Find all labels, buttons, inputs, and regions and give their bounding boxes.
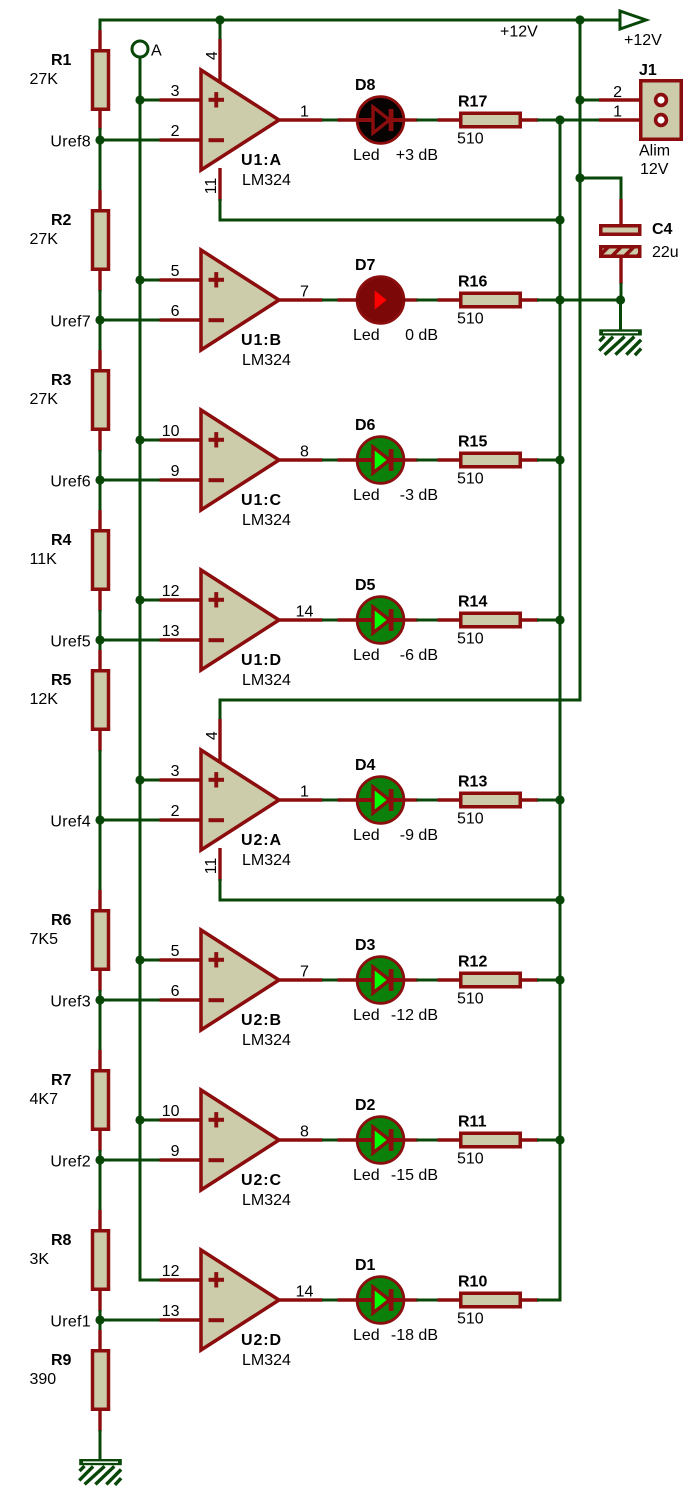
- wire: input bus to U1:C +IN: [140, 439, 161, 442]
- svg-text:Led: Led: [353, 1167, 380, 1184]
- wire: U1:A pin11 to return rail: [219, 219, 561, 222]
- junction: return rail / R15: [555, 455, 564, 464]
- svg-text:LM324: LM324: [242, 1032, 291, 1049]
- svg-text:U1:C: U1:C: [241, 492, 282, 509]
- svg-text:D7: D7: [355, 257, 376, 274]
- resistor R4: [93, 510, 109, 612]
- wire: D7 to R16: [417, 299, 439, 302]
- svg-text:-18 dB: -18 dB: [391, 1327, 438, 1344]
- resistor R6: [93, 890, 109, 992]
- svg-text:Uref6: Uref6: [50, 474, 91, 491]
- svg-text:510: 510: [457, 1311, 484, 1328]
- wire: U1:B OUT to D7: [322, 299, 339, 302]
- svg-text:+12V: +12V: [624, 32, 662, 49]
- LED D2: [338, 1117, 418, 1164]
- wire: +12V rail corner to U2:A pin4: [219, 699, 582, 702]
- wire: D2 to R11: [417, 1139, 439, 1142]
- svg-text:510: 510: [457, 991, 484, 1008]
- svg-text:Uref3: Uref3: [50, 994, 91, 1011]
- wire: input bus from terminal A down to U2:D pin12: [139, 57, 142, 1282]
- wire: U2:C OUT to D2: [322, 1139, 339, 1142]
- junction: input bus / U1:A +IN: [135, 95, 144, 104]
- LED D4: [338, 777, 418, 824]
- wire: above R8: [99, 1159, 102, 1211]
- wire: R15 to return rail: [537, 459, 562, 462]
- svg-text:Led: Led: [353, 1007, 380, 1024]
- wire: below R9: [99, 1430, 102, 1460]
- wire: input bus to U1:A +IN: [140, 99, 161, 102]
- svg-text:D6: D6: [355, 417, 376, 434]
- wire: D5 to R14: [417, 619, 439, 622]
- svg-text:510: 510: [457, 811, 484, 828]
- svg-text:LM324: LM324: [242, 852, 291, 869]
- wire: input bus corner to U2:D pin12: [139, 1279, 162, 1282]
- wire: input bus to U1:D +IN: [140, 599, 161, 602]
- svg-text:5: 5: [171, 263, 180, 280]
- junction: input bus / U2:C +IN: [135, 1115, 144, 1124]
- svg-text:R15: R15: [458, 434, 487, 451]
- svg-text:510: 510: [457, 1151, 484, 1168]
- terminal A (input): [132, 41, 148, 57]
- wire: return rail to C4 ground node: [560, 299, 623, 302]
- wire: U2:A pin11 to return rail: [219, 899, 561, 902]
- op-amp U1:D: [160, 570, 323, 670]
- svg-text:5: 5: [171, 943, 180, 960]
- wire: below R5: [99, 750, 102, 822]
- svg-text:Led: Led: [353, 147, 380, 164]
- svg-text:-3 dB: -3 dB: [400, 487, 438, 504]
- wire: U2:D OUT to D1: [322, 1299, 339, 1302]
- junction: return rail / U1:A pin11: [555, 215, 564, 224]
- pin 11 wire (U2:A GND): [218, 848, 221, 881]
- junction: return rail / R12: [555, 975, 564, 984]
- svg-text:U1:B: U1:B: [241, 332, 282, 349]
- ground (near C4): [599, 329, 642, 355]
- resistor R16: [438, 293, 539, 307]
- resistor R14: [438, 613, 539, 627]
- resistor R5: [93, 650, 109, 752]
- wire: Uref7 to U1:B -IN: [100, 319, 161, 322]
- svg-text:Led: Led: [353, 327, 380, 344]
- svg-text:27K: 27K: [30, 391, 59, 408]
- svg-text:D1: D1: [355, 1257, 376, 1274]
- pin 4 wire (U2:A V+): [219, 699, 222, 721]
- svg-text:LM324: LM324: [242, 1352, 291, 1369]
- resistor R8: [93, 1210, 109, 1312]
- wire: Uref1 to U2:D -IN: [100, 1319, 161, 1322]
- resistor R11: [438, 1133, 539, 1147]
- wire: input bus to U2:C +IN: [140, 1119, 161, 1122]
- LED D1: [338, 1277, 418, 1324]
- node Uref1: [95, 1315, 104, 1324]
- svg-text:7: 7: [300, 964, 309, 981]
- junction: return rail / R13: [555, 795, 564, 804]
- svg-text:LM324: LM324: [242, 512, 291, 529]
- svg-text:27K: 27K: [30, 231, 59, 248]
- wire: Uref6 to U1:C -IN: [100, 479, 161, 482]
- svg-text:1: 1: [613, 104, 622, 121]
- wire: R16 to return rail: [537, 299, 562, 302]
- svg-text:12: 12: [162, 583, 180, 600]
- svg-text:R3: R3: [51, 372, 72, 389]
- svg-text:Uref7: Uref7: [50, 314, 91, 331]
- svg-text:3: 3: [171, 763, 180, 780]
- wire: R10 to return rail: [537, 1299, 562, 1302]
- junction: input bus / U2:B +IN: [135, 955, 144, 964]
- wire: +12V rail to C4: [579, 177, 623, 180]
- svg-text:Led: Led: [353, 1327, 380, 1344]
- svg-text:R13: R13: [458, 774, 487, 791]
- svg-text:11: 11: [203, 178, 220, 195]
- node Uref7: [95, 315, 104, 324]
- wire: Uref5 to U1:D -IN: [100, 639, 161, 642]
- svg-text:U1:A: U1:A: [241, 152, 282, 169]
- svg-text:R11: R11: [458, 1114, 487, 1131]
- svg-text:2: 2: [171, 123, 180, 140]
- wire: R13 to return rail: [537, 799, 562, 802]
- svg-text:510: 510: [457, 131, 484, 148]
- wire: +12V rail to J1 pin2: [579, 99, 601, 102]
- svg-text:Uref1: Uref1: [50, 1314, 91, 1331]
- svg-text:7K5: 7K5: [30, 931, 59, 948]
- svg-text:LM324: LM324: [242, 1192, 291, 1209]
- wire: input bus to U2:B +IN: [140, 959, 161, 962]
- wire: above R9: [99, 1319, 102, 1331]
- wire: above R4: [99, 479, 102, 511]
- svg-text:+3 dB: +3 dB: [396, 147, 438, 164]
- svg-text:R10: R10: [458, 1274, 487, 1291]
- svg-text:7: 7: [300, 284, 309, 301]
- wire: U2:B OUT to D3: [322, 979, 339, 982]
- wire: LED return rail (to J1 pin1): [559, 120, 562, 1302]
- svg-text:11: 11: [203, 858, 220, 875]
- svg-text:12V: 12V: [640, 161, 669, 178]
- wire: ground node down: [619, 300, 622, 330]
- LED D5: [338, 597, 418, 644]
- wire: above R7: [99, 999, 102, 1051]
- svg-text:3: 3: [171, 83, 180, 100]
- LED D6: [338, 437, 418, 484]
- wire: D4 to R13: [417, 799, 439, 802]
- junction: input bus / U1:C +IN: [135, 435, 144, 444]
- svg-text:J1: J1: [639, 62, 657, 79]
- junction: return rail / R14: [555, 615, 564, 624]
- svg-text:+12V: +12V: [500, 24, 538, 41]
- LED D3: [338, 957, 418, 1004]
- svg-text:R7: R7: [51, 1072, 72, 1089]
- wire: +12V vertical rail: [579, 19, 582, 702]
- wire: Uref3 to U2:B -IN: [100, 999, 161, 1002]
- wire: above R5: [99, 639, 102, 651]
- svg-text:R6: R6: [51, 912, 72, 929]
- svg-text:R8: R8: [51, 1232, 72, 1249]
- op-amp U2:A: [160, 750, 323, 850]
- svg-text:Led: Led: [353, 647, 380, 664]
- wire: below R2: [99, 290, 102, 322]
- svg-text:14: 14: [296, 1284, 314, 1301]
- power terminal +12V arrow: [620, 11, 646, 29]
- junction: return rail / R17: [555, 115, 564, 124]
- capacitor C4: [601, 199, 640, 284]
- wire: return rail to J1 pin1: [559, 119, 601, 122]
- wire: Uref2 to U2:C -IN: [100, 1159, 161, 1162]
- pin 4 wire (U1:A V+): [219, 19, 222, 41]
- svg-text:13: 13: [162, 623, 180, 640]
- svg-text:2: 2: [171, 803, 180, 820]
- svg-text:390: 390: [30, 1371, 57, 1388]
- wire: Uref4 to U2:A -IN: [100, 819, 161, 822]
- node Uref5: [95, 635, 104, 644]
- svg-text:LM324: LM324: [242, 672, 291, 689]
- wire: D8 to R17: [417, 119, 439, 122]
- wire: R12 to return rail: [537, 979, 562, 982]
- op-amp U2:B: [160, 930, 323, 1030]
- junction: return rail / U2:A pin11: [555, 895, 564, 904]
- svg-text:A: A: [151, 43, 162, 60]
- svg-text:R2: R2: [51, 212, 72, 229]
- svg-text:D2: D2: [355, 1097, 376, 1114]
- wire: C4 to ground node: [620, 283, 623, 302]
- svg-text:22u: 22u: [652, 244, 679, 261]
- svg-text:Uref4: Uref4: [50, 814, 91, 831]
- junction: input bus / U1:B +IN: [135, 275, 144, 284]
- svg-text:Led: Led: [353, 487, 380, 504]
- wire: U1:A OUT to D8: [322, 119, 339, 122]
- svg-text:510: 510: [457, 471, 484, 488]
- connector J1: [599, 81, 681, 140]
- resistor R9: [93, 1330, 109, 1432]
- svg-text:4: 4: [204, 731, 221, 740]
- svg-text:12K: 12K: [30, 691, 59, 708]
- wire: below R3: [99, 450, 102, 482]
- node Uref3: [95, 995, 104, 1004]
- node Uref8: [95, 135, 104, 144]
- wire: +12V top rail: [99, 19, 621, 22]
- node Uref2: [95, 1155, 104, 1164]
- op-amp U1:A: [160, 70, 323, 170]
- wire: R11 to return rail: [537, 1139, 562, 1142]
- svg-text:9: 9: [171, 463, 180, 480]
- svg-text:27K: 27K: [30, 71, 59, 88]
- wire: below R4: [99, 610, 102, 642]
- node Uref4: [95, 815, 104, 824]
- svg-text:D5: D5: [355, 577, 376, 594]
- resistor R10: [438, 1293, 539, 1307]
- svg-text:LM324: LM324: [242, 172, 291, 189]
- junction: return rail / R16: [555, 295, 564, 304]
- svg-text:D4: D4: [355, 757, 376, 774]
- svg-text:3K: 3K: [30, 1251, 50, 1268]
- junction: return rail / R11: [555, 1135, 564, 1144]
- svg-text:R17: R17: [458, 94, 487, 111]
- svg-text:9: 9: [171, 1143, 180, 1160]
- svg-text:R12: R12: [458, 954, 487, 971]
- svg-text:-6 dB: -6 dB: [400, 647, 438, 664]
- resistor R15: [438, 453, 539, 467]
- op-amp U1:B: [160, 250, 323, 350]
- svg-text:-15 dB: -15 dB: [391, 1167, 438, 1184]
- LED D7: [338, 277, 418, 324]
- svg-text:U1:D: U1:D: [241, 652, 282, 669]
- svg-text:10: 10: [162, 423, 180, 440]
- svg-text:R4: R4: [51, 532, 72, 549]
- junction: +12V rail / J1 pin2: [575, 95, 584, 104]
- wire: input bus to U2:A +IN: [140, 779, 161, 782]
- svg-text:U2:A: U2:A: [241, 832, 282, 849]
- svg-text:D8: D8: [355, 77, 376, 94]
- resistor R17: [438, 113, 539, 127]
- svg-text:8: 8: [300, 1124, 309, 1141]
- wire: below R1: [99, 128, 102, 142]
- svg-text:U2:C: U2:C: [241, 1172, 282, 1189]
- svg-text:510: 510: [457, 631, 484, 648]
- svg-text:D3: D3: [355, 937, 376, 954]
- op-amp U1:C: [160, 410, 323, 510]
- svg-text:4K7: 4K7: [30, 1091, 59, 1108]
- svg-text:0 dB: 0 dB: [405, 327, 438, 344]
- junction: input bus / U2:A +IN: [135, 775, 144, 784]
- svg-text:R5: R5: [51, 672, 72, 689]
- junction: top rail / U1:A pin4: [215, 15, 224, 24]
- wire: Uref8 to U1:A -IN: [100, 139, 161, 142]
- svg-text:U2:D: U2:D: [241, 1332, 282, 1349]
- svg-text:Led: Led: [353, 827, 380, 844]
- svg-text:6: 6: [171, 303, 180, 320]
- svg-text:Uref2: Uref2: [50, 1154, 91, 1171]
- wire: D6 to R15: [417, 459, 439, 462]
- wire: D1 to R10: [417, 1299, 439, 1302]
- svg-text:11K: 11K: [30, 551, 58, 568]
- svg-text:1: 1: [300, 104, 309, 121]
- wire: below R7: [99, 1150, 102, 1162]
- svg-text:6: 6: [171, 983, 180, 1000]
- svg-text:8: 8: [300, 444, 309, 461]
- svg-text:C4: C4: [652, 221, 673, 238]
- junction: +12V rail / C4 branch: [575, 173, 584, 182]
- resistor R13: [438, 793, 539, 807]
- svg-text:-12 dB: -12 dB: [391, 1007, 438, 1024]
- wire: D3 to R12: [417, 979, 439, 982]
- wire: R14 to return rail: [537, 619, 562, 622]
- svg-text:Uref8: Uref8: [50, 134, 91, 151]
- resistor R7: [93, 1050, 109, 1152]
- svg-text:2: 2: [613, 84, 622, 101]
- svg-text:1: 1: [300, 784, 309, 801]
- junction: input bus / U1:D +IN: [135, 595, 144, 604]
- svg-text:LM324: LM324: [242, 352, 291, 369]
- resistor R1: [93, 30, 109, 130]
- wire: R1 top to +12V rail: [99, 19, 102, 32]
- wire: below R6: [99, 990, 102, 1002]
- wire: R10 output corner into return rail: [538, 1299, 562, 1302]
- wire: below R8: [99, 1310, 102, 1322]
- pin 11 wire (U1:A GND): [218, 168, 221, 201]
- wire: above R3: [99, 319, 102, 351]
- svg-text:R14: R14: [458, 594, 487, 611]
- LED D8: [338, 97, 418, 144]
- resistor R12: [438, 973, 539, 987]
- wire: above R6: [99, 819, 102, 891]
- wire: input bus to U1:B +IN: [140, 279, 161, 282]
- wire: U2:A OUT to D4: [322, 799, 339, 802]
- svg-text:R16: R16: [458, 274, 487, 291]
- node Uref6: [95, 475, 104, 484]
- op-amp U2:D: [160, 1250, 323, 1350]
- resistor R2: [93, 190, 109, 292]
- wire: above R2: [99, 139, 102, 191]
- resistor R3: [93, 350, 109, 452]
- svg-text:4: 4: [204, 51, 221, 60]
- wire: input bus to U2:D +IN: [140, 1279, 161, 1282]
- svg-text:12: 12: [162, 1263, 180, 1280]
- svg-text:10: 10: [162, 1103, 180, 1120]
- op-amp U2:C: [160, 1090, 323, 1190]
- svg-text:U2:B: U2:B: [241, 1012, 282, 1029]
- svg-text:R1: R1: [51, 52, 72, 69]
- wire: R17 to return rail: [537, 119, 562, 122]
- svg-text:Uref5: Uref5: [50, 634, 91, 651]
- svg-text:R9: R9: [51, 1352, 72, 1369]
- junction: top rail / +12V vertical rail: [575, 15, 584, 24]
- svg-text:14: 14: [296, 604, 314, 621]
- wire: U1:C OUT to D6: [322, 459, 339, 462]
- junction: C4 / ground: [616, 295, 625, 304]
- wire: U1:D OUT to D5: [322, 619, 339, 622]
- svg-text:Alim: Alim: [639, 143, 670, 160]
- ground (below R9): [79, 1459, 122, 1485]
- svg-text:510: 510: [457, 311, 484, 328]
- svg-text:-9 dB: -9 dB: [400, 827, 438, 844]
- svg-text:13: 13: [162, 1303, 180, 1320]
